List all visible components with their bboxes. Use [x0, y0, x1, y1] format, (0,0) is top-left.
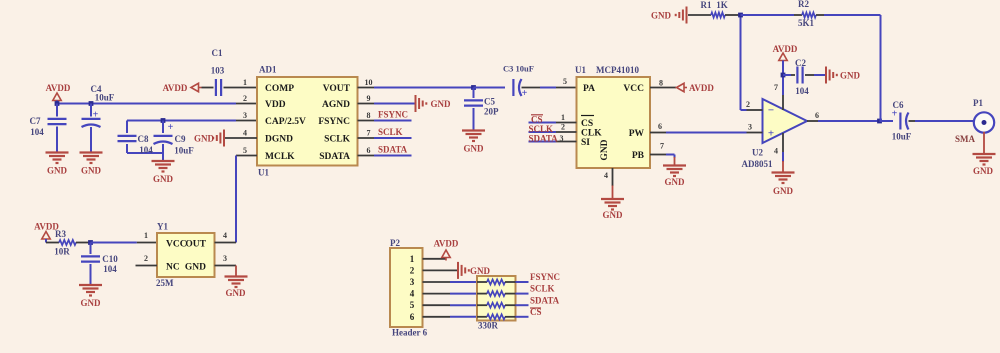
svg-text:SI: SI: [581, 138, 590, 148]
svg-text:5: 5: [243, 146, 247, 155]
svg-text:10: 10: [365, 78, 373, 87]
svg-text:1: 1: [144, 231, 148, 240]
svg-text:1: 1: [561, 113, 565, 122]
svg-text:GND: GND: [194, 134, 215, 144]
svg-text:1K: 1K: [716, 0, 728, 10]
svg-text:R1: R1: [701, 0, 712, 10]
svg-text:5K1: 5K1: [798, 18, 815, 28]
svg-text:1: 1: [410, 254, 415, 264]
svg-text:2: 2: [746, 100, 750, 109]
svg-text:3: 3: [410, 277, 415, 287]
svg-text:7: 7: [774, 83, 778, 92]
svg-text:3: 3: [223, 254, 227, 263]
svg-text:+: +: [168, 122, 174, 133]
svg-text:NC: NC: [166, 263, 180, 273]
svg-text:Header 6: Header 6: [392, 328, 428, 338]
svg-text:4: 4: [243, 129, 247, 138]
svg-text:U2: U2: [752, 148, 763, 158]
svg-text:PA: PA: [583, 84, 595, 94]
svg-text:GND: GND: [81, 166, 102, 176]
svg-text:GND: GND: [185, 263, 206, 273]
svg-text:104: 104: [139, 145, 153, 155]
svg-text:GND: GND: [47, 166, 68, 176]
svg-text:−: −: [768, 105, 774, 117]
svg-text:R3: R3: [55, 229, 66, 239]
svg-text:1: 1: [243, 78, 247, 87]
svg-text:C2: C2: [795, 58, 806, 68]
svg-text:Y1: Y1: [157, 222, 168, 232]
svg-text:10R: 10R: [54, 247, 70, 257]
svg-text:C9: C9: [175, 134, 186, 144]
svg-text:10uF: 10uF: [892, 132, 912, 142]
svg-text:U1: U1: [258, 168, 269, 178]
svg-text:103: 103: [211, 66, 225, 76]
svg-text:SMA: SMA: [955, 134, 976, 144]
svg-text:PW: PW: [629, 129, 645, 139]
svg-text:6: 6: [367, 146, 371, 155]
svg-text:C6: C6: [893, 100, 904, 110]
svg-text:AVDD: AVDD: [46, 83, 71, 93]
svg-text:+: +: [768, 128, 774, 140]
svg-text:7: 7: [660, 142, 664, 151]
svg-text:FSYNC: FSYNC: [530, 272, 560, 282]
svg-text:104: 104: [795, 86, 809, 96]
svg-text:VDD: VDD: [265, 100, 286, 110]
svg-text:C10: C10: [102, 254, 118, 264]
svg-text:GND: GND: [665, 177, 686, 187]
svg-text:9: 9: [367, 94, 371, 103]
svg-text:P2: P2: [390, 238, 400, 248]
svg-text:GND: GND: [973, 166, 994, 176]
svg-text:5: 5: [563, 77, 567, 86]
svg-text:VOUT: VOUT: [323, 84, 351, 94]
svg-text:4: 4: [604, 171, 608, 180]
svg-text:MCP41010: MCP41010: [596, 65, 639, 75]
svg-text:2: 2: [243, 94, 247, 103]
svg-text:AD8051: AD8051: [742, 159, 773, 169]
svg-text:6: 6: [410, 312, 415, 322]
svg-text:6: 6: [815, 111, 819, 120]
svg-text:MCLK: MCLK: [265, 152, 295, 162]
svg-text:2: 2: [144, 254, 148, 263]
svg-text:GND: GND: [431, 99, 452, 109]
svg-text:CAP/2.5V: CAP/2.5V: [265, 117, 306, 127]
svg-text:SCLK: SCLK: [324, 135, 350, 145]
svg-text:GND: GND: [470, 266, 491, 276]
svg-text:VCC: VCC: [623, 84, 644, 94]
svg-text:4: 4: [223, 231, 227, 240]
svg-text:4: 4: [410, 289, 415, 299]
svg-text:GND: GND: [153, 174, 174, 184]
svg-text:P1: P1: [973, 98, 983, 108]
svg-text:CS: CS: [581, 119, 593, 129]
svg-text:GND: GND: [840, 71, 861, 81]
svg-text:AGND: AGND: [322, 100, 350, 110]
svg-text:CS: CS: [531, 114, 543, 124]
svg-text:C8: C8: [138, 134, 149, 144]
svg-text:VCC: VCC: [166, 240, 187, 250]
svg-text:C3 10uF: C3 10uF: [503, 64, 534, 74]
svg-text:U1: U1: [575, 65, 586, 75]
svg-text:AVDD: AVDD: [163, 83, 188, 93]
svg-text:AVDD: AVDD: [689, 83, 714, 93]
svg-text:GND: GND: [464, 144, 485, 154]
svg-text:R2: R2: [798, 0, 809, 9]
svg-text:DGND: DGND: [265, 135, 293, 145]
svg-text:SDATA: SDATA: [530, 295, 560, 305]
svg-text:10uF: 10uF: [174, 146, 194, 156]
svg-text:SCLK: SCLK: [530, 284, 555, 294]
svg-text:CLK: CLK: [581, 129, 602, 139]
svg-text:SDATA: SDATA: [529, 133, 559, 143]
svg-text:5: 5: [410, 300, 415, 310]
svg-text:25M: 25M: [156, 278, 174, 288]
svg-text:330R: 330R: [478, 321, 499, 331]
svg-text:2: 2: [561, 123, 565, 132]
svg-text:2: 2: [410, 265, 415, 275]
svg-text:SDATA: SDATA: [319, 152, 350, 162]
svg-text:SCLK: SCLK: [378, 127, 403, 137]
svg-text:6: 6: [658, 122, 662, 131]
svg-text:AD1: AD1: [259, 65, 277, 75]
svg-text:COMP: COMP: [265, 84, 294, 94]
svg-text:20P: 20P: [484, 107, 499, 117]
svg-text:GND: GND: [81, 298, 102, 308]
svg-text:3: 3: [748, 123, 752, 132]
svg-text:10uF: 10uF: [95, 93, 115, 103]
svg-text:PB: PB: [632, 151, 645, 161]
svg-text:+: +: [892, 109, 898, 120]
svg-text:GND: GND: [773, 186, 794, 196]
svg-text:GND: GND: [603, 210, 624, 220]
svg-text:C5: C5: [484, 97, 495, 107]
svg-text:7: 7: [367, 129, 371, 138]
svg-text:SDATA: SDATA: [378, 145, 408, 155]
svg-text:C7: C7: [30, 116, 41, 126]
svg-text:FSYNC: FSYNC: [378, 110, 408, 120]
svg-text:8: 8: [659, 79, 663, 88]
svg-text:GND: GND: [600, 139, 610, 160]
svg-text:+: +: [93, 110, 99, 121]
svg-text:4: 4: [774, 147, 778, 156]
svg-text:GND: GND: [651, 11, 672, 21]
svg-text:GND: GND: [226, 288, 247, 298]
svg-text:104: 104: [30, 127, 44, 137]
svg-text:8: 8: [367, 111, 371, 120]
svg-text:3: 3: [560, 134, 564, 143]
svg-text:+: +: [522, 88, 528, 99]
svg-text:3: 3: [243, 111, 247, 120]
svg-text:104: 104: [103, 264, 117, 274]
svg-text:C1: C1: [212, 48, 223, 58]
svg-text:OUT: OUT: [185, 240, 206, 250]
svg-text:AVDD: AVDD: [434, 239, 459, 249]
svg-text:FSYNC: FSYNC: [318, 117, 350, 127]
svg-text:AVDD: AVDD: [773, 44, 798, 54]
